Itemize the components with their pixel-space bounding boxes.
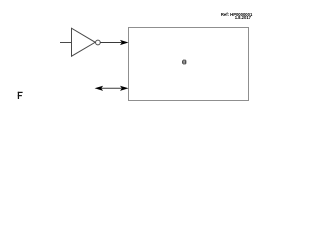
wire (inverter input) [60, 42, 72, 44]
wire (inverter output to block) [100, 42, 121, 44]
wire (bidirectional bus line) [102, 87, 122, 89]
arrowhead left (bidirectional) [95, 86, 104, 91]
node theta (circled-minus symbol inside block) [182, 60, 186, 65]
node F label [18, 92, 23, 99]
svg-text:1.8.2017: 1.8.2017 [235, 15, 252, 20]
arrowhead into block [120, 40, 129, 45]
inverter U2 (triangle) [72, 28, 96, 56]
inverter U2 bubble [96, 40, 101, 45]
arrowhead right (bidirectional) [120, 86, 129, 91]
block U1 (rectangle body) [129, 28, 249, 101]
